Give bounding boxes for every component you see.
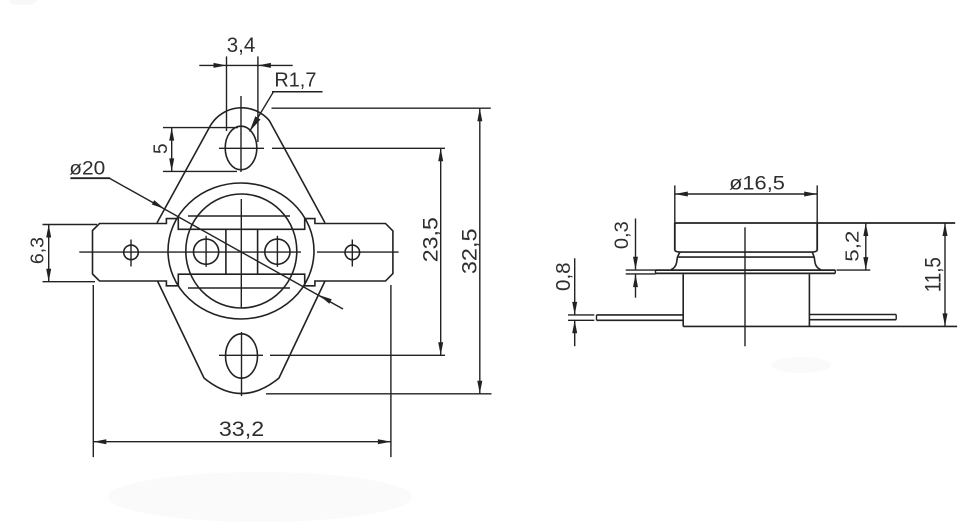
crimp left side [677, 252, 680, 257]
flange left end [655, 270, 657, 273]
left terminal hole vertical crosshair [130, 240, 132, 267]
leader R1,7 [250, 92, 274, 131]
left terminal hole [124, 245, 139, 260]
svg-text:5: 5 [151, 143, 172, 154]
right terminal end [895, 315, 897, 320]
contact bracket left vertical [225, 229, 227, 274]
svg-text:3,4: 3,4 [227, 34, 256, 57]
flange diamond outline [157, 108, 325, 394]
dimension 0,8 reference lines [568, 314, 594, 316]
horizontal centerline of strip [79, 251, 301, 253]
body right side [808, 274, 810, 326]
crimp right side [812, 252, 814, 257]
svg-text:23,5: 23,5 [420, 217, 443, 262]
dimension 33,2 line [93, 441, 391, 443]
dimension 0,8 line [574, 258, 576, 314]
body outer circle (ø20) [168, 183, 314, 319]
contact bracket right vertical [257, 229, 259, 274]
svg-text:ø20: ø20 [69, 159, 105, 180]
right rivet vertical crosshair [276, 236, 278, 267]
svg-text:11,5: 11,5 [921, 257, 946, 292]
left terminal end [596, 315, 598, 320]
skirt left flare [671, 257, 677, 270]
svg-text:33,2: 33,2 [219, 418, 264, 441]
dimension 3,4 extension lines [226, 56, 228, 131]
dimension 33,2 extension lines [92, 285, 94, 457]
left rivet circle [194, 239, 219, 264]
top hole horizontal crosshair / 23,5 upper reference [219, 147, 264, 149]
faint smudge bottom-left [108, 472, 412, 522]
left rivet vertical crosshair [205, 236, 207, 267]
flange right end [834, 270, 836, 273]
flange plate bottom line [656, 272, 836, 274]
dimension 3,4 line [199, 64, 292, 66]
left terminal blade bottom [597, 319, 684, 321]
bottom mounting hole [226, 334, 258, 378]
cap crimp line 1 [675, 251, 817, 252]
svg-text:R1,7: R1,7 [274, 69, 316, 92]
part vertical centerline middle segment [240, 199, 242, 308]
cap top line and 5,2/11,5 upper reference [675, 222, 956, 224]
flange plate top line [656, 269, 836, 271]
bimetal disc line lower [188, 287, 290, 289]
body inner dome circle [186, 194, 297, 308]
dimension 5 line [171, 128, 173, 172]
cap left side [674, 223, 676, 251]
right terminal blade top [809, 314, 896, 316]
dimension ø16,5 line [675, 193, 817, 195]
dimension 11,5 line [944, 223, 946, 326]
terminal strip outline [93, 219, 393, 286]
dimension 0,3 reference lines [626, 269, 656, 271]
body bottom / 11,5 lower reference [683, 325, 957, 327]
dimension 5,2 line [865, 223, 867, 270]
dimension 0,3 line [635, 219, 637, 270]
dimension ø16,5 extension lines [674, 185, 676, 223]
bottom hole horizontal crosshair / 23,5 lower reference [219, 354, 263, 356]
dimension 6,3 line [48, 225, 50, 282]
dimension 32,5 lower reference [266, 393, 492, 395]
body left side [682, 274, 684, 326]
svg-text:0,3: 0,3 [612, 221, 633, 249]
dimension 23,5 line [440, 148, 442, 355]
top mounting hole [225, 126, 257, 170]
side view vertical centerline [744, 227, 746, 346]
cap crimp line 2 [677, 256, 814, 258]
svg-text:0,8: 0,8 [553, 262, 575, 291]
faint smudge top-left [9, 0, 37, 5]
svg-text:6,3: 6,3 [28, 237, 48, 264]
left terminal blade top [597, 314, 684, 316]
svg-text:ø16,5: ø16,5 [729, 173, 785, 194]
right terminal hole vertical crosshair [351, 240, 353, 267]
svg-text:5,2: 5,2 [842, 231, 863, 262]
dimension 32,5 upper reference [272, 107, 491, 109]
right terminal hole [345, 245, 360, 260]
part vertical centerline top segment [240, 96, 242, 172]
svg-text:32,5: 32,5 [459, 228, 482, 274]
cap right side [816, 223, 818, 251]
skirt right flare [814, 257, 821, 270]
leader ø20 underline [70, 177, 110, 179]
bimetal disc line upper [188, 215, 290, 217]
right terminal blade bottom [809, 319, 896, 321]
dimension 6,3 reference lines [43, 224, 98, 226]
dimension 5 reference lines [163, 127, 238, 129]
leader ø20 [109, 178, 343, 309]
dimension 5,2 lower reference [837, 269, 871, 271]
part vertical centerline bottom segment [241, 332, 243, 396]
dimension 32,5 line [479, 108, 481, 394]
leader R1,7 underline [272, 91, 323, 93]
faint smudge right-bottom [771, 357, 831, 373]
right rivet circle [265, 239, 290, 264]
